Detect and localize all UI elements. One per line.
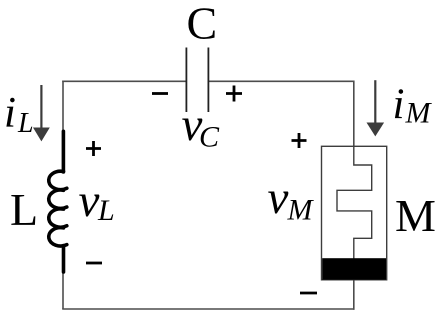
svg-text:M: M [405, 96, 433, 129]
svg-text:i: i [393, 81, 405, 128]
svg-text:i: i [4, 90, 16, 137]
svg-text:M: M [287, 194, 315, 227]
svg-text:v: v [79, 175, 100, 227]
svg-text:C: C [199, 121, 220, 154]
svg-text:M: M [395, 190, 436, 241]
svg-text:L: L [97, 194, 115, 227]
svg-text:L: L [17, 108, 34, 139]
svg-text:C: C [187, 0, 218, 49]
svg-text:v: v [268, 172, 289, 224]
svg-text:L: L [10, 184, 38, 235]
